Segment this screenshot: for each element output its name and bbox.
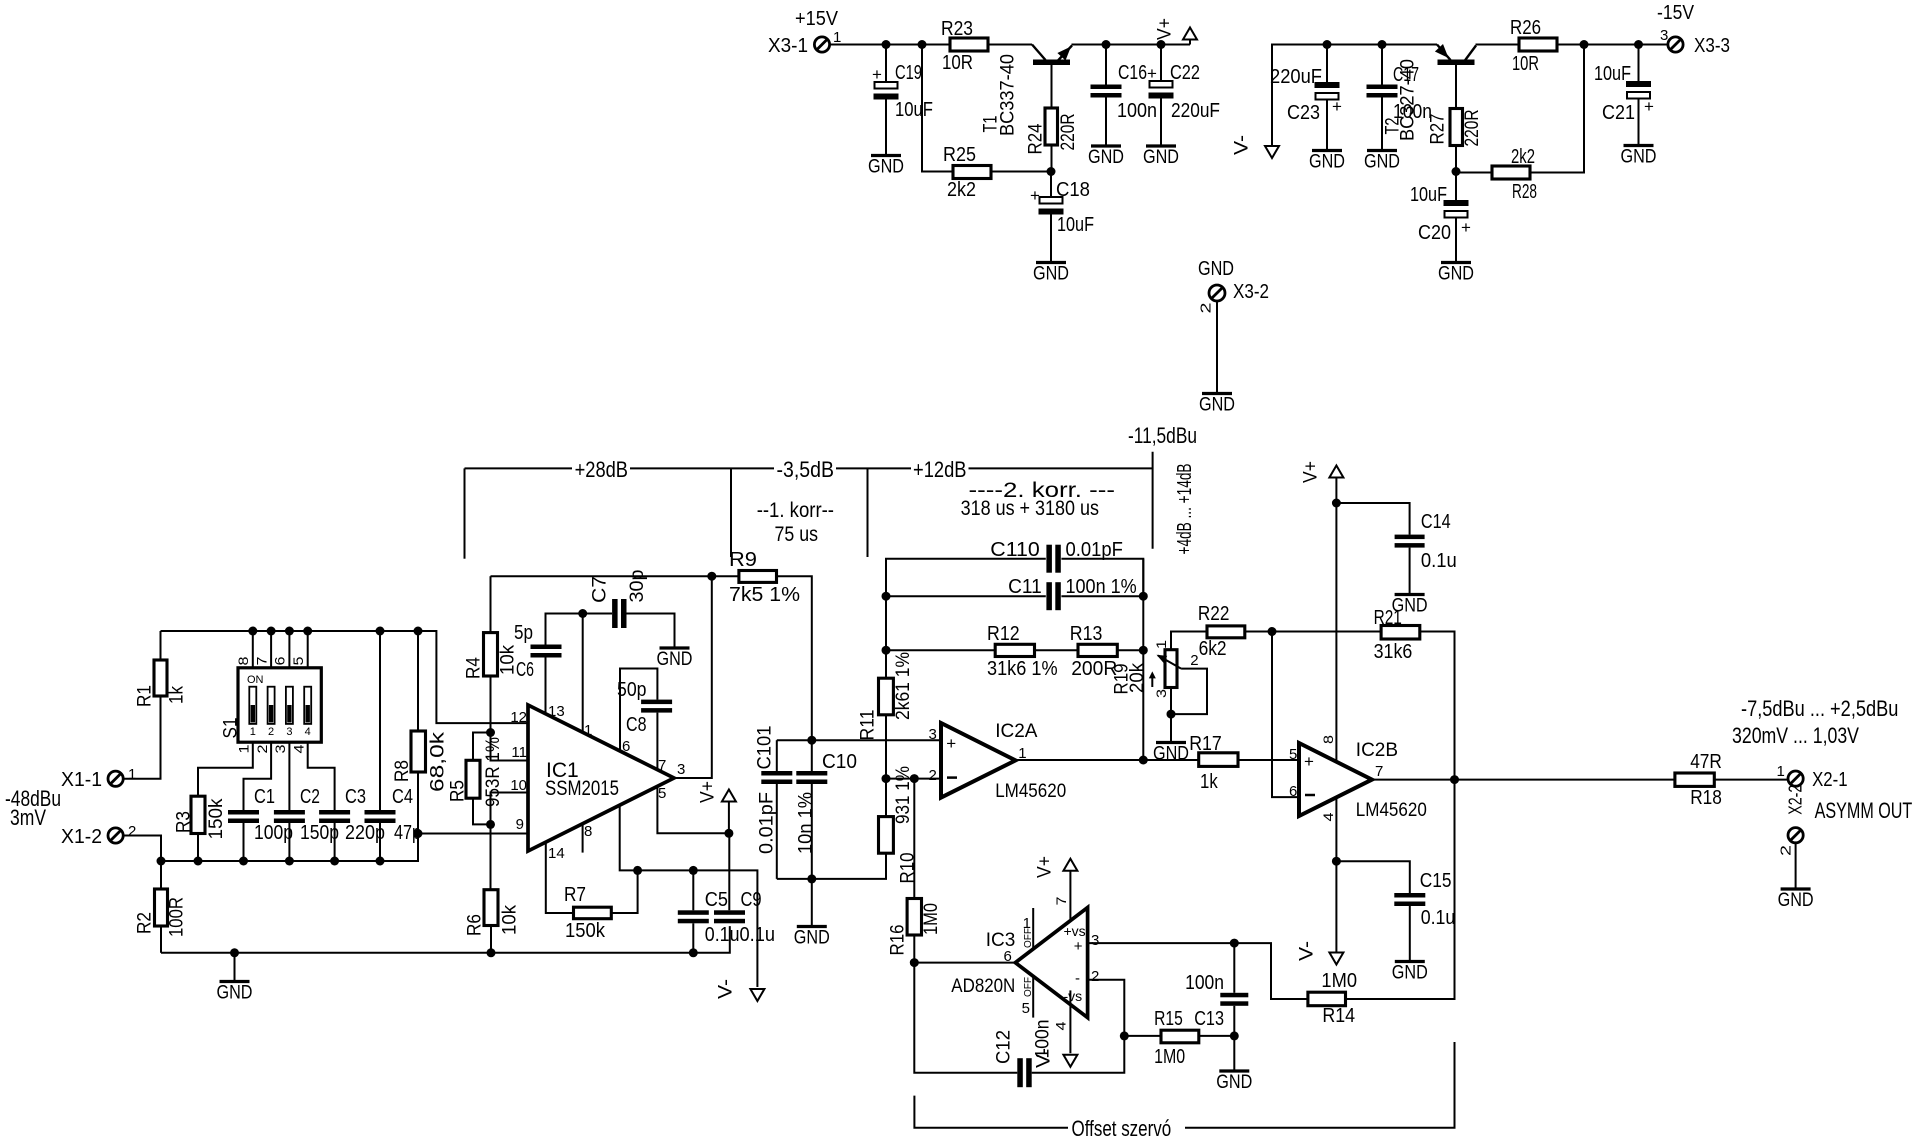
capacitor C1 100p xyxy=(228,786,293,844)
svg-text:6: 6 xyxy=(1004,948,1012,965)
wire R28 feedback column xyxy=(1530,45,1584,173)
capacitor C14 0.1u xyxy=(1395,511,1457,572)
svg-text:R25: R25 xyxy=(943,144,976,166)
svg-text:5: 5 xyxy=(1289,746,1297,763)
wire R21 feedback xyxy=(1272,631,1381,633)
svg-text:7k5 1%: 7k5 1% xyxy=(729,584,800,606)
svg-text:1k: 1k xyxy=(1200,771,1219,793)
svg-text:-3,5dB: -3,5dB xyxy=(777,457,835,482)
power symbol V+ (IC1) xyxy=(698,781,736,833)
wire R4 to node A xyxy=(490,676,492,733)
svg-text:10: 10 xyxy=(510,777,527,794)
resistor R15 1M0 xyxy=(1154,1008,1199,1068)
svg-text:7: 7 xyxy=(1053,896,1069,905)
svg-text:R11: R11 xyxy=(858,710,879,741)
wire X2-2 to ground xyxy=(1795,843,1797,888)
wire R8 to pin9 node xyxy=(417,772,419,834)
wire C17 branch xyxy=(1381,45,1383,85)
annotation bracket +28dB / -3,5dB / +12dB xyxy=(465,457,1153,559)
svg-text:C11: C11 xyxy=(1008,576,1042,598)
svg-text:C14: C14 xyxy=(1421,511,1451,533)
label +4dB ... +14dB (rotated) xyxy=(1174,464,1196,555)
junction C21 node xyxy=(1634,40,1643,49)
svg-text:C9: C9 xyxy=(741,889,762,911)
junction C1 bus node xyxy=(239,857,248,866)
svg-text:100R: 100R xyxy=(167,897,188,937)
svg-text:4: 4 xyxy=(1320,812,1336,821)
svg-text:R4: R4 xyxy=(464,657,485,679)
wire S1 pin1 to R3 xyxy=(198,742,253,796)
capacitor C15 0.1u xyxy=(1394,870,1455,929)
wire C101/C10 bottom rail xyxy=(777,853,886,879)
svg-text:C4: C4 xyxy=(392,786,413,808)
svg-text:C16: C16 xyxy=(1118,62,1147,84)
svg-text:R9: R9 xyxy=(729,549,757,571)
svg-text:V-: V- xyxy=(716,979,737,999)
svg-text:GND: GND xyxy=(1199,395,1235,416)
svg-text:150k: 150k xyxy=(206,798,227,839)
resistor R27 220R xyxy=(1428,109,1484,147)
capacitor C16 100n xyxy=(1091,62,1158,122)
svg-text:30p: 30p xyxy=(627,570,648,603)
wire S1 pin2 to C1 xyxy=(244,742,272,810)
svg-text:220R: 220R xyxy=(1462,110,1483,147)
capacitor C21 10uF xyxy=(1594,63,1654,124)
svg-text:+vs: +vs xyxy=(1064,923,1086,939)
op-amp IC3 AD820N xyxy=(951,908,1099,1018)
svg-text:3: 3 xyxy=(1091,932,1099,949)
wire pin6 node down to pin 6 xyxy=(1272,632,1299,798)
wire C7 right to ground xyxy=(627,614,675,647)
wire R25 branch down xyxy=(922,45,953,172)
svg-text:C19: C19 xyxy=(895,62,922,84)
servo bracket Offset szervo xyxy=(914,1042,1454,1141)
svg-text:75 us: 75 us xyxy=(775,523,819,546)
svg-text:220R: 220R xyxy=(1058,114,1079,151)
junction C3 bus node xyxy=(330,857,339,866)
svg-text:14: 14 xyxy=(548,845,565,862)
wire C15 to ground xyxy=(1409,906,1411,960)
ground under C10 xyxy=(794,927,830,949)
junction R13 right node xyxy=(1139,646,1148,655)
junction C2 bus node xyxy=(285,857,294,866)
svg-text:4: 4 xyxy=(290,744,306,753)
svg-text:R12: R12 xyxy=(987,623,1020,645)
svg-text:100p: 100p xyxy=(254,822,293,844)
wire R3 to lower bus xyxy=(197,834,199,862)
svg-text:10uF: 10uF xyxy=(1410,184,1447,206)
svg-text:R23: R23 xyxy=(941,18,973,40)
wire C20 to ground xyxy=(1455,218,1457,262)
terminal X2-2 xyxy=(1778,798,1913,856)
svg-text:V-: V- xyxy=(1232,135,1253,155)
svg-text:X1-1: X1-1 xyxy=(61,769,102,791)
op-amp IC2B LM45620 xyxy=(1289,735,1427,822)
capacitor C22 220uF xyxy=(1147,62,1220,122)
svg-text:C8: C8 xyxy=(626,714,647,736)
junction servo injection node xyxy=(910,774,919,783)
svg-text:X3-2: X3-2 xyxy=(1233,281,1269,303)
wire R6 to ground bus xyxy=(490,926,492,953)
junction C23 node xyxy=(1323,40,1332,49)
junction X1-2/R2 node xyxy=(157,857,166,866)
capacitor C110 0.01pF xyxy=(990,539,1123,573)
terminal X3-2 (GND) xyxy=(1198,258,1270,314)
svg-text:V+: V+ xyxy=(1301,461,1322,483)
svg-text:-7,5dBu ... +2,5dBu: -7,5dBu ... +2,5dBu xyxy=(1741,696,1898,721)
svg-text:13: 13 xyxy=(548,703,565,720)
capacitor C101 0.01pF xyxy=(755,726,793,879)
wire R14 to IC2B output xyxy=(1346,780,1455,999)
svg-text:220uF: 220uF xyxy=(1270,66,1322,88)
resistor R21 31k6 xyxy=(1374,607,1420,663)
ground under C15 xyxy=(1392,962,1428,984)
svg-text:-11,5dBu: -11,5dBu xyxy=(1128,423,1197,448)
svg-text:C22: C22 xyxy=(1170,62,1200,84)
svg-text:2: 2 xyxy=(254,744,270,753)
wire R16 to IC3 output xyxy=(913,935,915,963)
junction R15 left node xyxy=(1120,1031,1129,1040)
junction ground stub node xyxy=(230,948,239,957)
wire R9 to C10 node xyxy=(777,576,812,740)
svg-text:+15V: +15V xyxy=(795,8,839,30)
wire R11 to pin2 node xyxy=(885,715,887,779)
svg-text:GND: GND xyxy=(1309,152,1345,173)
svg-text:R27: R27 xyxy=(1428,114,1449,145)
wire C3 to bus xyxy=(334,823,336,861)
svg-text:R8: R8 xyxy=(392,760,413,782)
svg-text:200R: 200R xyxy=(1071,658,1117,680)
svg-text:+: + xyxy=(1461,218,1471,237)
resistor R8 68,0k xyxy=(392,731,449,792)
svg-text:C101: C101 xyxy=(755,726,776,770)
resistor R7 150k xyxy=(564,884,611,942)
wire C23 to ground xyxy=(1326,100,1328,150)
svg-text:1: 1 xyxy=(250,726,256,738)
svg-text:GND: GND xyxy=(1088,147,1124,168)
wire C8 to pin 7 xyxy=(656,713,658,770)
svg-text:4: 4 xyxy=(305,726,311,738)
wire C5 to ground bus xyxy=(692,923,694,953)
svg-text:68,0k: 68,0k xyxy=(428,731,449,792)
svg-text:+: + xyxy=(1074,938,1083,955)
junction bus pin6 node xyxy=(285,627,294,636)
svg-text:8: 8 xyxy=(1320,735,1336,744)
wire R27 to C20 junction xyxy=(1455,146,1457,172)
junction R15 right node xyxy=(1230,1031,1239,1040)
svg-text:+12dB: +12dB xyxy=(913,457,967,482)
wire C19 branch xyxy=(885,45,887,83)
wire R2 to ground bus xyxy=(160,926,162,953)
svg-text:C13: C13 xyxy=(1194,1008,1224,1030)
junction C11 left node xyxy=(882,592,891,601)
junction C16 node xyxy=(1102,40,1111,49)
svg-text:GND: GND xyxy=(868,157,904,178)
svg-text:10n 1%: 10n 1% xyxy=(796,792,817,854)
junction C15 node xyxy=(1332,857,1341,866)
wire S1 pin4 to C3 xyxy=(308,742,335,810)
node label -11,5dBu xyxy=(1128,423,1197,448)
wire C1 to bus xyxy=(243,823,245,861)
resistor R28 2k2 xyxy=(1492,146,1537,203)
svg-text:R14: R14 xyxy=(1322,1005,1355,1027)
junction R6 ground node xyxy=(487,948,496,957)
svg-text:2k61 1%: 2k61 1% xyxy=(893,652,914,720)
wire R13 right xyxy=(1117,649,1143,651)
svg-text:BC337-40: BC337-40 xyxy=(998,54,1019,136)
svg-text:R10: R10 xyxy=(898,853,919,884)
wire C110 top branch xyxy=(886,559,1046,597)
junction R19 wiper/pin3 node xyxy=(1167,710,1176,719)
svg-text:1k: 1k xyxy=(167,686,188,704)
wire pin 8 stub xyxy=(582,824,584,853)
svg-text:R24: R24 xyxy=(1026,123,1047,154)
junction C14 node xyxy=(1332,499,1341,508)
resistor R18 47R xyxy=(1675,751,1722,809)
power symbol V+ (IC2B) xyxy=(1301,461,1344,762)
capacitor C7 30p xyxy=(590,570,649,629)
svg-text:GND: GND xyxy=(217,983,253,1004)
ground under C7 xyxy=(657,648,693,670)
wire pin 14 to R7 xyxy=(546,842,574,913)
power symbol V- (IC2B) xyxy=(1297,941,1344,965)
wire C23 branch xyxy=(1326,45,1328,83)
junction C20 node xyxy=(1452,167,1461,176)
svg-text:-15V: -15V xyxy=(1657,2,1695,24)
wire R2 branch xyxy=(160,861,162,889)
svg-text:0.1u: 0.1u xyxy=(1421,550,1457,572)
wire ground stub xyxy=(234,953,236,980)
wire node B to R6 xyxy=(490,824,492,889)
svg-text:7: 7 xyxy=(1375,763,1383,780)
ground under R19 xyxy=(1153,743,1189,765)
svg-text:3: 3 xyxy=(677,761,685,778)
wire R24 to R25/C18 junction xyxy=(1051,145,1053,172)
junction C22 node xyxy=(1157,40,1166,49)
svg-text:C6: C6 xyxy=(516,659,534,681)
wire C18 to ground xyxy=(1050,215,1052,262)
svg-text:4: 4 xyxy=(1053,1021,1069,1030)
capacitor C11 100n 1% xyxy=(1008,576,1137,610)
svg-text:LM45620: LM45620 xyxy=(995,781,1066,802)
wire C21 to ground xyxy=(1638,99,1640,145)
svg-text:C15: C15 xyxy=(1420,870,1452,892)
wire R8 from top bus xyxy=(417,631,419,731)
trimmer R19 20k xyxy=(1112,640,1199,698)
svg-text:47R: 47R xyxy=(1690,751,1722,773)
wire C21 branch xyxy=(1638,45,1640,82)
svg-text:R13: R13 xyxy=(1070,623,1103,645)
svg-text:31k6 1%: 31k6 1% xyxy=(987,658,1058,680)
wire C110 right branch xyxy=(1061,559,1143,597)
dip switch S1 xyxy=(221,631,322,754)
wire R23 to T1 collector xyxy=(988,44,1032,46)
wire IC2A pin3 rail xyxy=(777,739,941,741)
wire ground bus xyxy=(161,926,730,953)
capacitor C17 100n xyxy=(1367,64,1433,123)
resistor R17 1k xyxy=(1189,733,1238,793)
svg-text:LM45620: LM45620 xyxy=(1356,800,1427,821)
wire R7 to V- rail xyxy=(611,870,637,913)
ground under X2-2 xyxy=(1778,889,1814,911)
junction C10 ground node xyxy=(807,874,816,883)
terminal X3-3 (-15V) xyxy=(1657,2,1730,57)
svg-text:+: + xyxy=(872,65,882,84)
wire C14 branch xyxy=(1336,503,1409,535)
ground under C19 xyxy=(868,156,904,178)
wire C10 ground stub xyxy=(811,879,813,925)
svg-text:IC2B: IC2B xyxy=(1356,740,1398,761)
terminal X1-2 xyxy=(61,823,136,848)
wire C4 to bus xyxy=(379,823,381,861)
wire R19 wiper loop xyxy=(1171,669,1207,715)
wire feedback column to output xyxy=(1142,559,1144,760)
junction IC3 output node xyxy=(910,958,919,967)
capacitor C6 5p xyxy=(514,622,562,681)
svg-text:ON: ON xyxy=(247,674,264,686)
wire C15 branch xyxy=(1336,861,1409,893)
junction bus pin8 node xyxy=(248,627,257,636)
junction C4 bus node xyxy=(376,857,385,866)
wire pin 6 to C8 xyxy=(620,669,657,752)
wire C13 branch xyxy=(1233,943,1235,993)
ground under C17 xyxy=(1364,151,1400,173)
label 1. korr 75 us xyxy=(757,499,834,546)
resistor R26 10R xyxy=(1510,17,1557,75)
svg-text:2: 2 xyxy=(128,823,136,840)
svg-text:Offset szervó: Offset szervó xyxy=(1072,1116,1172,1141)
svg-text:R28: R28 xyxy=(1512,181,1537,203)
svg-text:R22: R22 xyxy=(1198,603,1230,625)
junction node B (R5/R6/pin10) xyxy=(486,820,495,829)
power symbol V+ (top) xyxy=(1155,18,1198,45)
svg-text:5: 5 xyxy=(1022,1000,1030,1017)
ground under input bus xyxy=(217,982,253,1004)
svg-text:V-: V- xyxy=(1297,941,1318,961)
svg-text:2: 2 xyxy=(268,726,274,738)
svg-text:3mV: 3mV xyxy=(10,805,46,830)
wire IC2A pin2 xyxy=(886,778,941,780)
wire IC1 feedback R9 line xyxy=(491,575,712,577)
svg-text:C5: C5 xyxy=(705,889,728,911)
transistor T2 BC327-40 xyxy=(1383,44,1477,141)
resistor R14 1M0 xyxy=(1308,970,1357,1027)
svg-text:R18: R18 xyxy=(1690,787,1722,809)
resistor R3 150k xyxy=(174,796,228,839)
svg-text:2k2: 2k2 xyxy=(947,179,976,201)
wire R1 to top bus xyxy=(160,631,162,660)
svg-text:8: 8 xyxy=(235,656,251,665)
svg-text:BC327-40: BC327-40 xyxy=(1398,59,1419,141)
wire IC3 output to apex xyxy=(914,962,1015,964)
junction bus pin5 node xyxy=(303,627,312,636)
svg-text:S1: S1 xyxy=(221,718,242,739)
svg-text:X1-2: X1-2 xyxy=(61,826,102,848)
wire lower input bus xyxy=(161,834,418,862)
svg-text:3: 3 xyxy=(1660,27,1668,44)
svg-text:C12: C12 xyxy=(994,1030,1015,1064)
resistor R25 2k2 xyxy=(943,144,991,201)
ground under C22 xyxy=(1143,146,1179,168)
wire R18 to X2-1 xyxy=(1714,779,1788,781)
svg-text:IC2A: IC2A xyxy=(995,721,1038,742)
svg-text:+28dB: +28dB xyxy=(575,457,628,482)
svg-text:1: 1 xyxy=(236,744,252,753)
junction R3 bus node xyxy=(194,857,203,866)
svg-text:SSM2015: SSM2015 xyxy=(545,777,619,800)
wire pin 5 to V+ xyxy=(657,785,729,833)
svg-text:+: + xyxy=(1304,752,1314,771)
resistor R6 10k xyxy=(465,890,521,936)
svg-text:0.1u: 0.1u xyxy=(1421,907,1456,929)
svg-text:GND: GND xyxy=(1216,1072,1252,1093)
wire C11 right xyxy=(1061,595,1143,597)
svg-text:10k: 10k xyxy=(500,905,521,935)
svg-text:1M0: 1M0 xyxy=(921,903,942,935)
svg-text:AD820N: AD820N xyxy=(951,976,1015,997)
junction R12 left node xyxy=(882,646,891,655)
svg-text:R26: R26 xyxy=(1510,17,1541,39)
wire X1-2 to lower bus xyxy=(123,836,161,862)
ground under X3-2 xyxy=(1199,394,1235,416)
svg-text:7: 7 xyxy=(253,656,269,665)
svg-text:R15: R15 xyxy=(1154,1008,1183,1030)
svg-text:3: 3 xyxy=(272,744,288,753)
junction R28 column node xyxy=(1580,40,1589,49)
svg-text:C1: C1 xyxy=(254,786,275,808)
resistor R1 1k xyxy=(135,660,188,707)
junction pin2 node xyxy=(882,774,891,783)
resistor R11 2k61 1% xyxy=(858,652,915,741)
wire C11 left xyxy=(886,595,1046,597)
svg-text:C2: C2 xyxy=(300,786,320,808)
svg-text:2: 2 xyxy=(1778,845,1795,856)
output level label xyxy=(1732,696,1898,748)
wire R28 to C20 node xyxy=(1456,172,1492,174)
junction bus pin7 node xyxy=(267,627,276,636)
junction IC1 output/R9 node xyxy=(707,572,716,581)
svg-text:-vs: -vs xyxy=(1064,988,1083,1004)
wire top gain bus xyxy=(161,631,529,723)
svg-text:8: 8 xyxy=(584,823,592,840)
wire C6 top to C7 left xyxy=(546,614,613,645)
wire R12 to R13 xyxy=(1035,649,1079,651)
wire R25 to C18 node xyxy=(991,171,1051,173)
capacitor C8 50p xyxy=(617,679,672,736)
wire R11 column xyxy=(885,596,887,678)
wire R17 to IC2B pin5 xyxy=(1238,759,1299,761)
wire R19 pin1 to R22 xyxy=(1171,632,1207,650)
wire X3-2 to ground xyxy=(1216,301,1218,392)
svg-text:1: 1 xyxy=(1777,763,1785,780)
svg-text:V+: V+ xyxy=(1155,18,1176,40)
svg-text:+: + xyxy=(1147,64,1157,83)
svg-text:GND: GND xyxy=(657,649,693,670)
wire C17 to ground xyxy=(1381,98,1383,150)
svg-text:12: 12 xyxy=(510,709,527,726)
svg-text:-: - xyxy=(1075,970,1080,987)
wire C5 branch xyxy=(692,870,694,910)
wire C13 to ground xyxy=(1233,1006,1235,1070)
svg-text:100n: 100n xyxy=(1185,972,1224,994)
svg-text:ASYMM OUT: ASYMM OUT xyxy=(1815,798,1913,823)
junction C13 top node xyxy=(1230,939,1239,948)
svg-text:X2-2: X2-2 xyxy=(1786,785,1806,815)
resistor R12 31k6 1% xyxy=(987,623,1058,680)
svg-text:V+: V+ xyxy=(698,781,719,803)
capacitor C10 10n 1% xyxy=(796,740,858,879)
capacitor C5 0.1u xyxy=(678,889,740,946)
